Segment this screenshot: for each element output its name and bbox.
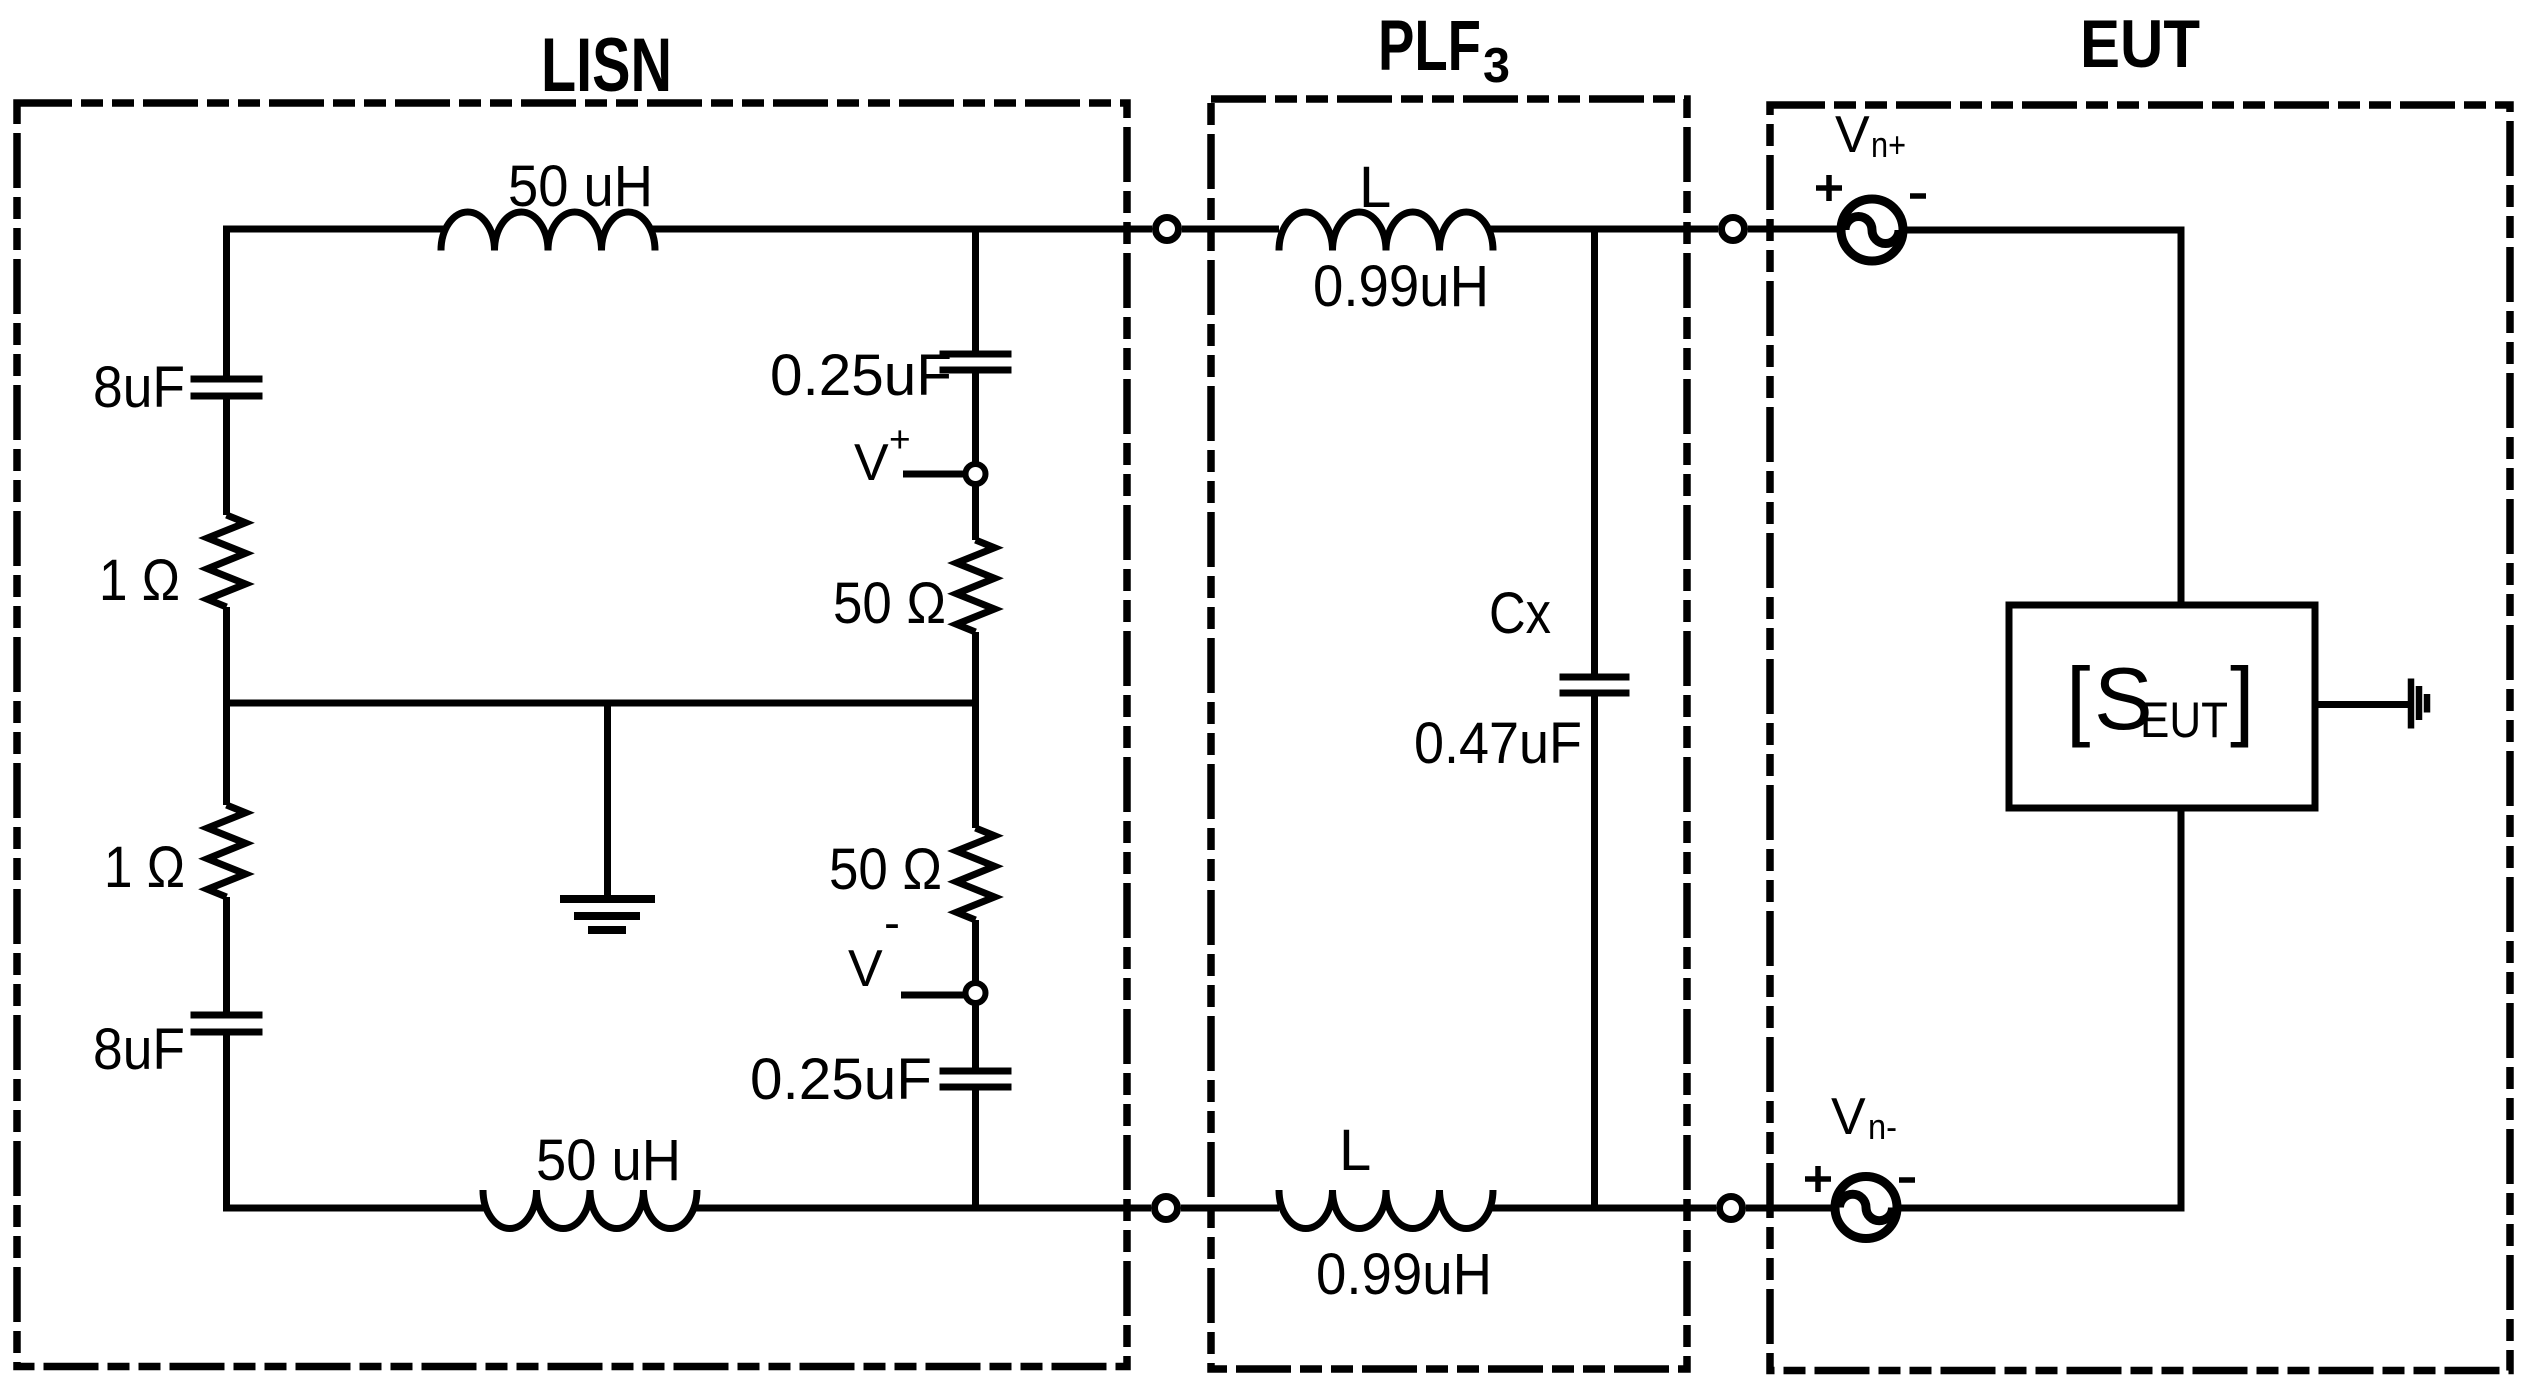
svg-text:1 Ω: 1 Ω bbox=[99, 548, 180, 613]
svg-text:1 Ω: 1 Ω bbox=[104, 835, 185, 900]
EUT network box bbox=[2009, 605, 2315, 808]
svg-text:V: V bbox=[1835, 106, 1870, 164]
wire 0.25uF branch top bbox=[972, 229, 979, 354]
wire Vn+ to EUT corner bbox=[1904, 230, 2181, 605]
wire 8uF to 1ohm bbox=[223, 396, 230, 515]
svg-text:[: [ bbox=[2066, 649, 2090, 748]
resistor 1 ohm (lower) bbox=[208, 805, 246, 897]
svg-text:+: + bbox=[889, 419, 911, 460]
inductor L (PLF3 top) bbox=[1279, 212, 1493, 251]
polarity - (Vn+) bbox=[1910, 193, 1926, 199]
inductor L (PLF3 bottom) bbox=[1279, 1190, 1493, 1229]
label Vn+ bbox=[1835, 106, 1906, 165]
capacitor 8uF (lower) bbox=[191, 1015, 263, 1032]
svg-text:8uF: 8uF bbox=[93, 355, 185, 420]
node PLF3-EUT top bbox=[1722, 218, 1745, 241]
wire node to PLF3 bottom bbox=[1181, 1205, 1279, 1212]
label V- bbox=[848, 897, 900, 998]
svg-text:LISN: LISN bbox=[541, 23, 672, 108]
wire LISN left vertical (top) bbox=[223, 229, 230, 379]
resistor 50 ohm (lower) bbox=[957, 828, 995, 920]
wire V- lead bbox=[901, 992, 965, 999]
svg-text:50 Ω: 50 Ω bbox=[833, 571, 946, 636]
PLF3 enclosure dashed box bbox=[1211, 99, 1687, 1369]
ground (LISN) bbox=[560, 899, 655, 930]
source Vn+ bbox=[1841, 199, 1903, 261]
svg-text:0.47uF: 0.47uF bbox=[1414, 711, 1582, 776]
svg-text:n-: n- bbox=[1868, 1106, 1897, 1147]
svg-text:0.99uH: 0.99uH bbox=[1316, 1242, 1492, 1307]
svg-text:V: V bbox=[1831, 1088, 1866, 1146]
label [S EUT] bbox=[2066, 649, 2254, 748]
wire node to PLF3 top bbox=[1182, 226, 1279, 233]
label Vn- bbox=[1831, 1088, 1897, 1147]
polarity - (Vn-) bbox=[1899, 1177, 1915, 1183]
svg-text:EUT: EUT bbox=[2140, 692, 2228, 748]
wire Cx branch vertical bottom bbox=[1591, 693, 1598, 1208]
svg-text:8uF: 8uF bbox=[93, 1017, 185, 1082]
wire 0.25uF lower to bottom rail bbox=[972, 1087, 979, 1208]
wire LISN top-left horizontal bbox=[223, 226, 446, 233]
source Vn- bbox=[1835, 1177, 1897, 1239]
svg-text:0.25uF: 0.25uF bbox=[770, 343, 952, 408]
capacitor 0.25uF (upper) bbox=[940, 354, 1012, 370]
wire node to Vn+ bbox=[1748, 226, 1841, 233]
svg-text:Cx: Cx bbox=[1489, 581, 1551, 646]
inductor 50 uH (LISN top) bbox=[441, 212, 655, 251]
node V+ terminal bbox=[966, 464, 986, 484]
wire 50ohm lower to V- node bbox=[972, 920, 979, 983]
svg-text:0.99uH: 0.99uH bbox=[1313, 254, 1489, 319]
wire PLF3 top to node bbox=[1489, 226, 1718, 233]
ground (EUT, rotated) bbox=[2411, 679, 2427, 729]
svg-text:V: V bbox=[848, 940, 883, 998]
svg-text:50 Ω: 50 Ω bbox=[829, 837, 942, 902]
wire LISN bottom to node bbox=[692, 1205, 1151, 1212]
node LISN-PLF3 top bbox=[1156, 218, 1179, 241]
wire middle rail to 1ohm lower bbox=[223, 703, 230, 805]
svg-text:EUT: EUT bbox=[2080, 6, 2200, 82]
wire 1ohm to middle rail bbox=[223, 607, 230, 703]
svg-text:3: 3 bbox=[1483, 39, 1510, 93]
wire EUT box bottom to Vn- bbox=[1897, 808, 2181, 1208]
polarity + (Vn+) bbox=[1816, 175, 1842, 201]
wire 8uF lower to bottom rail bbox=[223, 1032, 230, 1208]
wire 50ohm to middle rail bbox=[972, 632, 979, 703]
wire node to Vn- bbox=[1746, 1205, 1837, 1212]
svg-text:n+: n+ bbox=[1871, 124, 1906, 165]
wire V- node to 0.25uF lower bbox=[972, 1003, 979, 1071]
node V- terminal bbox=[966, 983, 986, 1003]
wire LISN bottom-left horizontal bbox=[223, 1205, 488, 1212]
svg-text:50 uH: 50 uH bbox=[536, 1128, 681, 1193]
capacitor 0.25uF (lower) bbox=[940, 1071, 1012, 1087]
EUT enclosure dashed box bbox=[1770, 105, 2510, 1371]
svg-text:L: L bbox=[1339, 1118, 1371, 1183]
wire Cx branch vertical top bbox=[1591, 229, 1598, 677]
svg-text:PLF: PLF bbox=[1378, 7, 1481, 86]
wire PLF3 bottom to node bbox=[1489, 1205, 1716, 1212]
resistor 50 ohm (upper) bbox=[957, 540, 995, 632]
inductor 50 uH (LISN bottom) bbox=[483, 1190, 697, 1229]
wire 1ohm lower to 8uF lower bbox=[223, 897, 230, 1015]
svg-text:]: ] bbox=[2230, 649, 2254, 748]
svg-text:50 uH: 50 uH bbox=[508, 154, 653, 219]
wire V+ lead bbox=[903, 471, 965, 478]
wire middle rail to 50ohm lower bbox=[972, 703, 979, 828]
svg-text:0.25uF: 0.25uF bbox=[750, 1047, 932, 1112]
label V+ bbox=[854, 419, 911, 492]
LISN enclosure dashed box bbox=[17, 103, 1127, 1367]
node PLF3-EUT bottom bbox=[1720, 1197, 1743, 1220]
node LISN-PLF3 bottom bbox=[1155, 1197, 1178, 1220]
capacitor 8uF (upper) bbox=[191, 379, 263, 396]
resistor 1 ohm (upper) bbox=[208, 515, 246, 607]
wire EUT box to ground bbox=[2315, 701, 2408, 708]
polarity + (Vn-) bbox=[1805, 1166, 1831, 1192]
wire ground stem bbox=[604, 703, 611, 899]
svg-text:-: - bbox=[884, 897, 900, 950]
title PLF3 bbox=[1378, 7, 1510, 93]
wire LISN middle rail bbox=[227, 700, 976, 707]
wire LISN top to node bbox=[650, 226, 1152, 233]
wire V+ node to 50ohm bbox=[972, 484, 979, 540]
wire 0.25uF to V+ node bbox=[972, 370, 979, 464]
svg-text:L: L bbox=[1359, 155, 1391, 220]
capacitor Cx 0.47uF bbox=[1560, 677, 1630, 693]
svg-text:V: V bbox=[854, 434, 889, 492]
